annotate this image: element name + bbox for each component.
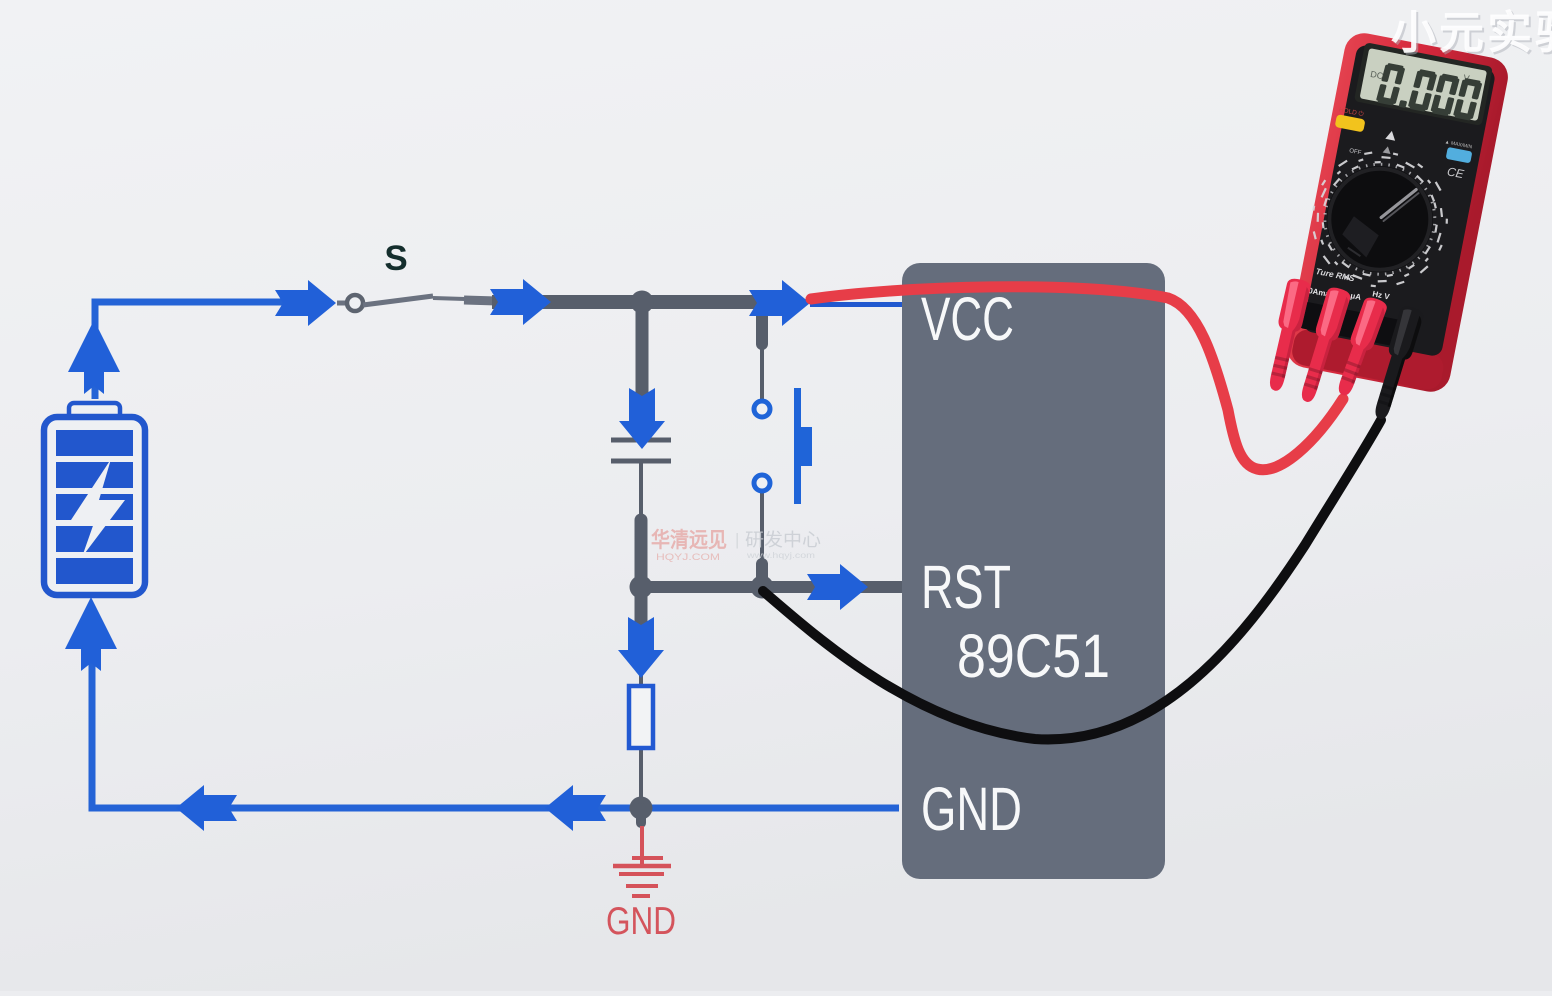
junction node C (button/RST) — [751, 576, 774, 599]
wire gnd return bottom — [92, 652, 899, 808]
junction node A (VCC/cap) — [631, 291, 654, 314]
svg-text:GND: GND — [606, 900, 676, 943]
MCU U1 89C51 — [902, 263, 1165, 879]
multimeter probe plug red 1 — [1263, 277, 1312, 393]
wire arrow to resistor stub — [639, 655, 643, 688]
wire push button to RST node — [760, 492, 764, 564]
arrow current into VCC — [749, 280, 810, 326]
wire VCC pin blue — [810, 302, 903, 307]
arrow current into capacitor — [619, 388, 665, 449]
svg-text:89C51: 89C51 — [957, 622, 1110, 690]
arrow current on GND wire left — [176, 785, 237, 831]
svg-text:|: | — [735, 530, 739, 549]
wire VCC node down to push button — [756, 302, 768, 344]
multimeter probe plug black — [1368, 304, 1425, 422]
wire node A down to capacitor — [636, 302, 649, 395]
svg-text:小元实验: 小元实验 — [1391, 7, 1552, 58]
push button K1 contacts — [754, 401, 770, 491]
wire resistor to GND node — [639, 748, 643, 806]
arrow current on GND wire right — [545, 785, 606, 831]
svg-text:HQYJ.COM: HQYJ.COM — [656, 552, 720, 562]
wire red probe lead — [811, 287, 1343, 470]
svg-text:VCC: VCC — [921, 285, 1014, 353]
wire capacitor to RST node — [639, 463, 643, 520]
multimeter probe plug red 2 — [1295, 285, 1352, 405]
switch S — [337, 295, 497, 311]
junction node B (cap/RST) — [630, 576, 653, 599]
battery BT1 — [44, 403, 145, 595]
arrow current into resistor — [618, 617, 664, 678]
wire battery top to switch — [95, 302, 290, 399]
wire RST node down to resistor — [635, 587, 648, 641]
arrow current into battery top — [68, 320, 120, 394]
svg-text:GND: GND — [921, 775, 1022, 843]
svg-text:华清远见: 华清远见 — [651, 528, 727, 552]
push button K1 actuator — [794, 388, 812, 504]
capacitor C1 — [611, 440, 671, 461]
wire switch to VCC node — [492, 295, 768, 309]
ground — [613, 826, 671, 896]
svg-text:www.hqyj.com: www.hqyj.com — [746, 551, 816, 560]
arrow current into RST — [807, 564, 868, 610]
multimeter probe plug red 3 — [1331, 295, 1388, 399]
junction node D (resistor/GND wire) — [630, 797, 653, 820]
wire RST row — [641, 581, 905, 593]
wire black probe lead — [763, 420, 1381, 739]
svg-text:RST: RST — [921, 553, 1011, 621]
arrow current after switch — [490, 279, 551, 325]
resistor R1 — [629, 686, 653, 748]
multimeter M1 — [1284, 30, 1512, 395]
arrow current into switch — [275, 280, 336, 326]
arrow current into battery bottom — [65, 597, 117, 671]
svg-text:S: S — [384, 239, 407, 278]
svg-text:研发中心: 研发中心 — [745, 530, 821, 550]
